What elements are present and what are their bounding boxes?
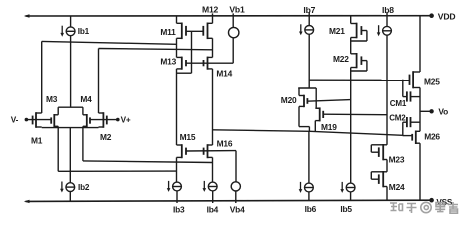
- svg-text:M1: M1: [31, 136, 43, 146]
- node VSS right dot: [429, 198, 434, 203]
- wire CM2 left drop: [402, 122, 404, 135]
- svg-text:Vo: Vo: [438, 106, 448, 116]
- watermark zhihu: [390, 202, 458, 213]
- wire Ib6 to VSS: [308, 192, 310, 201]
- svg-text:M11: M11: [160, 27, 176, 37]
- svg-text:Ib7: Ib7: [303, 5, 315, 15]
- current source Ib3: [167, 181, 182, 192]
- wire M24 gate hook: [371, 178, 379, 180]
- svg-text:Ib5: Ib5: [340, 204, 352, 214]
- wire V+ gate lead: [90, 119, 118, 121]
- capacitor CM1: [406, 91, 408, 101]
- wire Ib7 drop from rail: [308, 13, 310, 26]
- svg-text:Vb1: Vb1: [229, 4, 245, 14]
- wire Vo tap: [420, 110, 432, 112]
- wire Ib7 to cascode node: [308, 34, 310, 88]
- wire chain to Ib5: [350, 68, 352, 184]
- svg-text:M19: M19: [321, 122, 337, 132]
- wire Ib4 to VSS: [212, 191, 214, 203]
- wire M2 drain riser: [98, 49, 100, 114]
- current source Ib8: [377, 25, 392, 36]
- svg-text:M22: M22: [333, 54, 349, 64]
- wire M16 source drop: [212, 157, 214, 182]
- wire M24 source to VSS: [386, 187, 388, 201]
- wire Ib8 down to M23: [386, 35, 388, 145]
- wire Vb4 riser: [235, 151, 237, 182]
- svg-text:V-: V-: [11, 115, 19, 124]
- wire Vb1 to gate line: [232, 38, 234, 63]
- node Vo dot: [429, 109, 433, 113]
- wire bridge left: [57, 107, 59, 115]
- transistor M22: [351, 53, 362, 68]
- capacitor CM2: [406, 117, 408, 127]
- current source Ib6: [299, 182, 314, 193]
- wire M23 gate hook: [371, 151, 379, 153]
- svg-text:M14: M14: [216, 69, 232, 79]
- transistor M15: [177, 144, 187, 158]
- svg-text:M26: M26: [424, 132, 440, 142]
- transistor M24: [379, 171, 387, 187]
- wire V- gate lead: [26, 119, 51, 121]
- node VDD left arrow: [24, 14, 30, 17]
- svg-text:CM2: CM2: [389, 114, 406, 123]
- wire M12 source to M14 drain: [212, 38, 214, 57]
- wire M14 source to M16 drain: [212, 69, 214, 145]
- current source Ib4: [203, 181, 218, 192]
- wire connector to output line: [308, 127, 310, 132]
- svg-text:VDD: VDD: [438, 11, 456, 21]
- wire VDD rail: [26, 15, 434, 17]
- transistor M4: [83, 114, 90, 127]
- wire Ib1 drop from rail: [70, 16, 72, 27]
- transistor M19: [315, 107, 323, 121]
- svg-text:M15: M15: [180, 132, 196, 142]
- wire M3 source to M15 source: [58, 170, 177, 172]
- transistor M12: [203, 23, 212, 40]
- wire Ib5 to VSS: [350, 192, 352, 201]
- wire M15 source drop: [176, 157, 178, 182]
- svg-text:CM1: CM1: [390, 99, 407, 108]
- svg-text:Ib2: Ib2: [78, 183, 90, 192]
- wire M26 gate lead: [403, 135, 413, 137]
- current source Ib5: [340, 182, 355, 193]
- svg-text:V+: V+: [121, 115, 131, 124]
- current source Ib2: [60, 182, 75, 193]
- svg-text:Ib3: Ib3: [173, 205, 185, 215]
- current source Ib7: [299, 24, 314, 35]
- wire M26 source to VSS: [419, 143, 421, 200]
- transistor M25: [410, 71, 421, 88]
- wire M4 source to M16 source: [83, 161, 213, 163]
- current source Ib1: [60, 26, 75, 37]
- wire M3 source drop: [57, 126, 59, 171]
- wire M20 gate to chain: [307, 100, 350, 102]
- svg-text:M16: M16: [217, 139, 233, 149]
- svg-text:M25: M25: [424, 76, 440, 86]
- wire M13-M14 gate line to Vb1: [186, 62, 233, 64]
- node VDD right dot: [429, 13, 434, 18]
- node V- dot: [25, 118, 29, 122]
- svg-text:M23: M23: [389, 155, 405, 165]
- wire tail to Ib2: [69, 128, 71, 183]
- svg-text:Ib4: Ib4: [207, 205, 219, 215]
- wire M21 to M22: [350, 38, 352, 54]
- svg-text:M20: M20: [281, 95, 297, 105]
- wire M22 gate hook: [361, 60, 367, 62]
- wire Vb4 to VSS: [235, 191, 237, 203]
- wire CM1 left riser: [402, 80, 404, 97]
- node VSS left arrow: [24, 200, 30, 203]
- wire M11 drain to rail: [176, 16, 178, 23]
- wire M15-M16 gate line to Vb4: [186, 150, 236, 152]
- svg-text:Ib8: Ib8: [382, 5, 394, 15]
- svg-text:Ib1: Ib1: [78, 27, 90, 36]
- wire VSS rail: [26, 200, 434, 201]
- wire M19 drain riser: [315, 88, 317, 108]
- wire M19 drain jog: [316, 107, 320, 109]
- wire Ib1 to bridge: [70, 36, 72, 108]
- wire M20 drain riser: [298, 88, 300, 96]
- wire M25 source to rail: [419, 16, 421, 72]
- wire M23 to M24: [386, 160, 388, 172]
- svg-text:M12: M12: [202, 4, 219, 14]
- transistor M26: [412, 131, 420, 145]
- transistor M11: [177, 23, 187, 40]
- svg-text:M4: M4: [80, 94, 92, 104]
- wire M11 source to M13 drain: [176, 38, 178, 57]
- wire M19 gate line: [323, 113, 387, 116]
- transistor M1: [33, 112, 42, 128]
- transistor M2: [99, 112, 107, 128]
- wire M4 source drop: [82, 126, 84, 161]
- wire gate corner to M13 drain: [177, 72, 192, 74]
- wire cascode node to M25 gate: [309, 79, 409, 81]
- svg-text:M24: M24: [389, 182, 405, 192]
- svg-text:Ib6: Ib6: [305, 204, 317, 214]
- wire M25 drain to M26 drain: [419, 88, 421, 132]
- wire common source line M1-M2: [42, 127, 99, 129]
- wire M21 gate hook: [361, 30, 367, 32]
- transistor M16: [204, 144, 213, 158]
- wire gate drop to cascode: [191, 31, 193, 73]
- transistor M13: [177, 57, 187, 70]
- wire node B to M12 source: [99, 49, 213, 50]
- transistor M23: [379, 144, 387, 160]
- wire M21 drain to rail: [350, 16, 352, 24]
- wire bridge top: [58, 106, 83, 108]
- node V+ dot: [116, 118, 120, 122]
- wire node A to M11 source: [42, 41, 177, 44]
- wire M11-M12 gate tie: [186, 30, 203, 32]
- wire M12 drain to rail: [212, 13, 214, 23]
- wire Ib6 riser: [308, 131, 310, 183]
- transistor M20: [299, 95, 307, 108]
- svg-text:M3: M3: [46, 94, 58, 104]
- wire Ib2 to VSS: [69, 192, 71, 202]
- wire stage1 output line: [213, 130, 403, 136]
- svg-text:M2: M2: [100, 132, 112, 142]
- wire M20 source connector: [299, 126, 309, 128]
- svg-text:M21: M21: [329, 26, 345, 36]
- wire Vb1 drop from rail: [232, 13, 234, 27]
- svg-text:Vb4: Vb4: [230, 205, 245, 215]
- voltage source Vb1: [229, 27, 239, 37]
- wire M1 drain riser: [41, 41, 43, 113]
- transistor M3: [51, 114, 58, 127]
- wire M19 source stub drop: [314, 121, 316, 131]
- wire bridge right: [82, 107, 84, 115]
- wire M13 source to M15 drain: [176, 69, 178, 145]
- wire cascode node bar: [298, 87, 316, 89]
- svg-text:M13: M13: [160, 56, 176, 66]
- wire M20 source drop: [298, 106, 300, 126]
- transistor M14: [204, 57, 213, 70]
- wire Ib8 drop from rail: [386, 13, 388, 27]
- voltage source Vb4: [231, 182, 240, 191]
- transistor M21: [351, 23, 362, 39]
- wire Ib3 to VSS: [176, 191, 178, 203]
